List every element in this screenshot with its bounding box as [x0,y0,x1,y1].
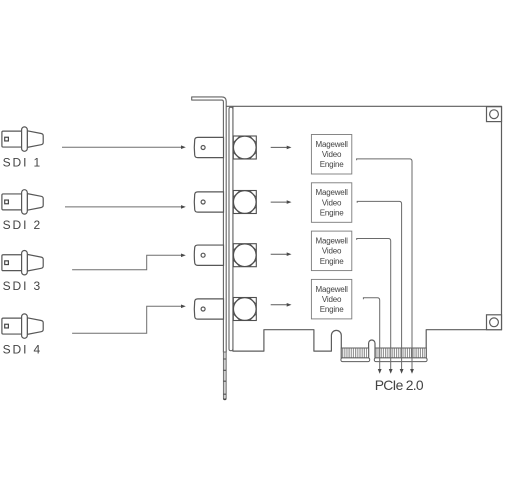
svg-text:Engine: Engine [320,160,344,169]
BNC jack 3 flange on card [233,244,256,267]
BNC jack 3 barrel [194,245,223,265]
block Magewell Video Engine 3 [311,231,351,271]
BNC jack 4 flange on card [233,298,256,321]
svg-text:Video: Video [322,247,342,256]
mounting hole top-right [487,107,502,122]
svg-text:Magewell: Magewell [315,188,348,197]
wire BNC jack 4 to video engine 4 [271,304,287,306]
BNC jack 1 barrel [194,137,223,157]
wire SDI 3 to BNC jack 3 [72,255,181,269]
SDI cable plug 3 [2,251,43,275]
SDI cable plug 1 [2,127,43,151]
block Magewell Video Engine 2 [311,183,351,223]
PCIe card PCB outline [225,106,501,358]
wire SDI 1 to BNC jack 1 [62,146,181,148]
svg-text:SDI 4: SDI 4 [3,342,43,356]
block Magewell Video Engine 1 [311,135,351,175]
svg-text:SDI 2: SDI 2 [3,218,43,232]
mounting hole bottom-right [487,315,502,330]
bracket inner flange [229,107,233,351]
svg-text:SDI 1: SDI 1 [3,155,43,169]
SDI cable plug 4 [2,314,43,338]
SDI cable plug 2 [2,190,43,214]
svg-text:Engine: Engine [320,257,344,266]
svg-text:PCIe 2.0: PCIe 2.0 [375,377,424,393]
svg-text:Video: Video [322,198,342,207]
block Magewell Video Engine 4 [311,279,351,319]
edge connector lip 1 [341,358,370,362]
svg-text:Engine: Engine [320,305,344,314]
svg-text:Video: Video [322,150,342,159]
wire video engine 3 to PCIe bus [357,239,391,370]
svg-text:Video: Video [322,295,342,304]
wire BNC jack 1 to video engine 1 [271,146,287,148]
wire video engine 1 to PCIe bus [357,159,412,369]
PCIe edge connector fingers segment 1 [341,348,368,358]
BNC jack 1 flange on card [233,136,256,159]
BNC jack 2 flange on card [233,191,256,214]
bracket (PCI slot cover) [192,97,227,352]
svg-text:Magewell: Magewell [315,285,348,294]
wire BNC jack 2 to video engine 2 [271,201,287,203]
PCIe edge connector fingers segment 2 [375,348,426,358]
bracket lower tab [223,352,226,400]
wire video engine 2 to PCIe bus [357,201,401,369]
svg-text:Magewell: Magewell [315,237,348,246]
wire video engine 4 to PCIe bus [363,298,379,369]
BNC jack 2 barrel [194,192,223,212]
edge connector lip 2 [374,358,427,362]
wire SDI 2 to BNC jack 2 [65,206,181,208]
BNC jack 4 barrel [194,299,223,319]
svg-text:SDI 3: SDI 3 [3,279,43,293]
svg-text:Engine: Engine [320,209,344,218]
wire SDI 4 to BNC jack 4 [72,306,181,333]
wire BNC jack 3 to video engine 3 [271,253,287,255]
svg-text:Magewell: Magewell [315,140,348,149]
